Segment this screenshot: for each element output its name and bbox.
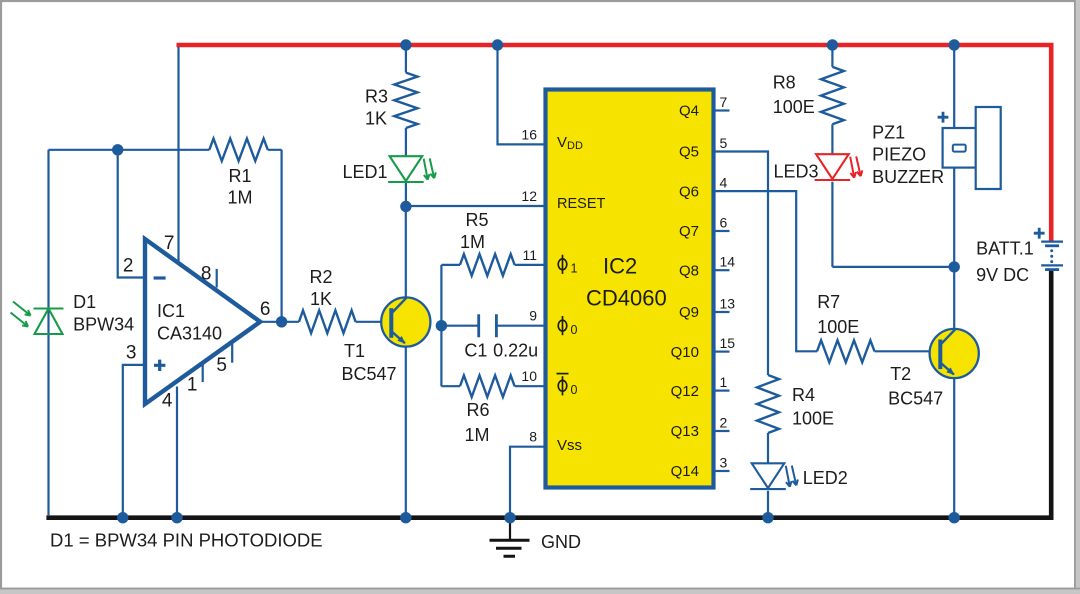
- svg-text:R1: R1: [228, 166, 251, 186]
- svg-text:0.22u: 0.22u: [493, 341, 538, 361]
- junction rail/VDD: [492, 39, 503, 50]
- ground symbol GND: [490, 518, 530, 557]
- wire: D1 anode to R1/pin2 node (horizontal): [49, 149, 282, 151]
- svg-text:PIEZO: PIEZO: [872, 145, 926, 165]
- svg-text:16: 16: [521, 126, 537, 142]
- svg-text:1K: 1K: [310, 289, 332, 309]
- wire: LED1 node to IC2 RESET pin 12: [406, 205, 545, 207]
- resistor R6 1M: [460, 375, 515, 397]
- resistor R2 1K: [299, 310, 356, 333]
- wire: R8/LED3 branch from rail: [831, 45, 833, 267]
- svg-text:Q9: Q9: [679, 304, 699, 321]
- svg-text:Q6: Q6: [679, 183, 699, 200]
- svg-text:5: 5: [216, 355, 227, 376]
- wire: R7 to T2 base: [875, 350, 941, 352]
- junction rail/R3: [400, 39, 411, 50]
- resistor R5 1M: [460, 254, 515, 276]
- svg-text:Q14: Q14: [671, 463, 699, 480]
- svg-text:1: 1: [187, 375, 198, 396]
- junction gnd/pin3: [117, 512, 128, 523]
- svg-text:LED3: LED3: [773, 162, 818, 182]
- wire: T2 emitter to ground: [953, 378, 955, 518]
- svg-text:LED2: LED2: [803, 468, 848, 488]
- svg-text:R3: R3: [365, 86, 388, 106]
- svg-text:8: 8: [201, 264, 212, 285]
- wire: C1 to IC2 pin 9: [441, 325, 545, 327]
- svg-text:1M: 1M: [460, 232, 485, 252]
- IC2 pin 7 (Q4): [714, 109, 730, 111]
- junction R1/pin2 node: [112, 144, 123, 155]
- svg-text:4: 4: [162, 391, 173, 412]
- resistor R4 100E: [757, 375, 779, 433]
- svg-text:6: 6: [260, 299, 271, 320]
- svg-text:1: 1: [571, 262, 578, 276]
- resistor R8 100E: [821, 67, 844, 124]
- svg-text:R4: R4: [792, 385, 815, 405]
- svg-text:6: 6: [720, 215, 728, 231]
- wire: rail to piezo to T2 collector: [953, 45, 955, 329]
- IC2 pin label phi-0-bar: [558, 380, 567, 391]
- wire: +9V supply rail (red): [177, 45, 1052, 241]
- svg-text:11: 11: [522, 247, 537, 263]
- IC1 pin 1 stub: [202, 364, 204, 383]
- svg-text:LED1: LED1: [342, 162, 387, 182]
- svg-text:Q4: Q4: [679, 103, 699, 120]
- junction LED1/RESET/T1 node: [400, 201, 411, 212]
- wire: D1 branch vertical: [47, 150, 49, 516]
- svg-text:100E: 100E: [773, 97, 815, 117]
- svg-text:Vss: Vss: [557, 437, 582, 454]
- wire: IC2 Q5 pin 5 to R4: [714, 152, 769, 376]
- svg-text:D1: D1: [73, 292, 96, 312]
- wire: rail to IC1 pin 7: [177, 47, 179, 263]
- svg-text:3: 3: [126, 343, 137, 364]
- wire: R3/LED1 branch from rail: [405, 45, 407, 207]
- wire: T1 collector: [405, 207, 407, 298]
- svg-text:1M: 1M: [227, 188, 252, 208]
- svg-text:R6: R6: [466, 400, 489, 420]
- IC2 pin 1 (Q12): [714, 390, 730, 392]
- svg-text:0: 0: [571, 383, 578, 397]
- transistor T1 BC547: [381, 297, 430, 346]
- svg-text:9: 9: [529, 308, 537, 324]
- IC2 pin label phi-1: [558, 259, 567, 270]
- transistor T2 BC547: [930, 329, 979, 378]
- wire: R1 feedback vertical: [281, 150, 283, 322]
- junction rail/piezo: [949, 39, 960, 50]
- IC2 pin 15 (Q10): [714, 351, 730, 353]
- svg-text:Q13: Q13: [671, 423, 699, 440]
- battery BATT.1 9V: [1034, 228, 1063, 270]
- wire: R6 to IC2 pin 10: [441, 385, 545, 387]
- IC2 pin 14 (Q8): [714, 269, 730, 271]
- junction gnd/pin4: [171, 512, 182, 523]
- svg-text:7: 7: [164, 233, 175, 254]
- svg-text:9V DC: 9V DC: [976, 265, 1029, 285]
- svg-text:100E: 100E: [817, 317, 859, 337]
- svg-text:13: 13: [720, 296, 736, 312]
- IC U2: IC2 CD4060 body: [546, 90, 714, 488]
- svg-text:CD4060: CD4060: [586, 286, 667, 311]
- svg-text:GND: GND: [541, 532, 581, 552]
- svg-text:BC547: BC547: [342, 364, 397, 384]
- wire: IC2 Q6 pin 4 to R7: [714, 191, 818, 351]
- IC2 pin label phi-0: [558, 320, 567, 331]
- svg-text:PZ1: PZ1: [872, 123, 905, 143]
- svg-text:Q12: Q12: [671, 383, 699, 400]
- svg-text:D1 = BPW34 PIN PHOTODIODE: D1 = BPW34 PIN PHOTODIODE: [50, 529, 323, 550]
- svg-text:BPW34: BPW34: [73, 315, 134, 335]
- svg-text:C1: C1: [464, 341, 487, 361]
- svg-text:14: 14: [720, 254, 736, 270]
- svg-text:RESET: RESET: [557, 196, 605, 212]
- svg-text:T2: T2: [890, 364, 911, 384]
- svg-text:1M: 1M: [464, 425, 489, 445]
- svg-text:3: 3: [720, 455, 728, 471]
- junction gnd/T1e: [400, 512, 411, 523]
- svg-text:Q8: Q8: [679, 262, 699, 279]
- resistor R3 1K: [394, 73, 417, 128]
- wire: IC1 pin 3 to ground: [123, 365, 145, 518]
- svg-text:Q10: Q10: [671, 344, 699, 361]
- svg-text:R7: R7: [817, 292, 840, 312]
- svg-text:R2: R2: [309, 267, 332, 287]
- wire: LED3 cathode to T2 collector node: [832, 266, 954, 268]
- svg-text:R8: R8: [773, 73, 796, 93]
- photodiode D1 BPW34: [34, 309, 64, 335]
- LED LED3 (red): [815, 154, 851, 180]
- svg-text:T1: T1: [344, 341, 365, 361]
- svg-text:1: 1: [720, 374, 728, 390]
- svg-text:IC2: IC2: [603, 254, 637, 279]
- wire: IC1 pin 4 to ground: [176, 387, 178, 518]
- junction C1 oscillator node: [436, 320, 447, 331]
- svg-text:IC1: IC1: [157, 301, 185, 321]
- wire: IC1 pin 6 output to R2 and T1 base: [260, 321, 391, 323]
- svg-text:Q7: Q7: [679, 223, 699, 240]
- capacitor C1 0.22u: [479, 314, 497, 337]
- wire: IC2 Vss pin 8 to ground: [510, 447, 545, 518]
- wire: R4 to LED2 to ground: [767, 433, 769, 518]
- svg-text:BATT.1: BATT.1: [976, 239, 1034, 259]
- svg-text:8: 8: [529, 429, 537, 445]
- svg-text:100E: 100E: [792, 409, 834, 429]
- IC2 pin 6 (Q7): [714, 230, 730, 232]
- LED LED1 (green): [388, 156, 424, 182]
- resistor R1 1M: [209, 139, 267, 161]
- svg-text:7: 7: [720, 94, 728, 110]
- IC1 pin 5 stub: [231, 342, 233, 362]
- svg-text:5: 5: [720, 135, 728, 151]
- svg-text:BUZZER: BUZZER: [872, 167, 944, 187]
- junction rail/R8: [827, 39, 838, 50]
- junction gnd/T2e: [949, 512, 960, 523]
- svg-text:1K: 1K: [365, 109, 387, 129]
- buzzer PZ1 piezo: [938, 107, 1001, 189]
- svg-text:12: 12: [521, 188, 537, 204]
- wire: ground rail (black): [46, 270, 1051, 518]
- wire: node A to IC1 pin 2: [118, 150, 145, 278]
- IC2 pin 2 (Q13): [714, 430, 730, 432]
- svg-text:4: 4: [720, 175, 728, 191]
- junction gnd/LED2: [762, 512, 773, 523]
- IC2 pin 13 (Q9): [714, 311, 730, 313]
- svg-text:Q5: Q5: [679, 144, 699, 161]
- wire: R5 to IC2 pin 11: [441, 264, 545, 266]
- svg-text:CA3140: CA3140: [157, 324, 222, 344]
- IC2 pin 3 (Q14): [714, 470, 730, 472]
- junction LED3/T2 collector node: [949, 261, 960, 272]
- op-amp IC1 CA3140: [145, 239, 260, 404]
- svg-text:2: 2: [123, 256, 134, 277]
- junction gnd/Vss: [504, 512, 515, 523]
- wire: rail to IC2 VDD pin 16: [498, 45, 546, 144]
- svg-text:0: 0: [571, 323, 578, 337]
- svg-text:10: 10: [521, 368, 537, 384]
- svg-text:15: 15: [720, 335, 736, 351]
- svg-text:BC547: BC547: [888, 389, 943, 409]
- LED LED2 (blue): [750, 463, 786, 489]
- junction IC1 output node: [276, 316, 287, 327]
- svg-text:2: 2: [720, 415, 728, 431]
- svg-text:R5: R5: [465, 210, 488, 230]
- wire: oscillator vertical (R5/C1/R6 common): [440, 265, 442, 386]
- wire: T1 emitter to ground: [405, 347, 407, 518]
- resistor R7 100E: [817, 340, 875, 362]
- IC1 pin 8 stub: [216, 269, 218, 288]
